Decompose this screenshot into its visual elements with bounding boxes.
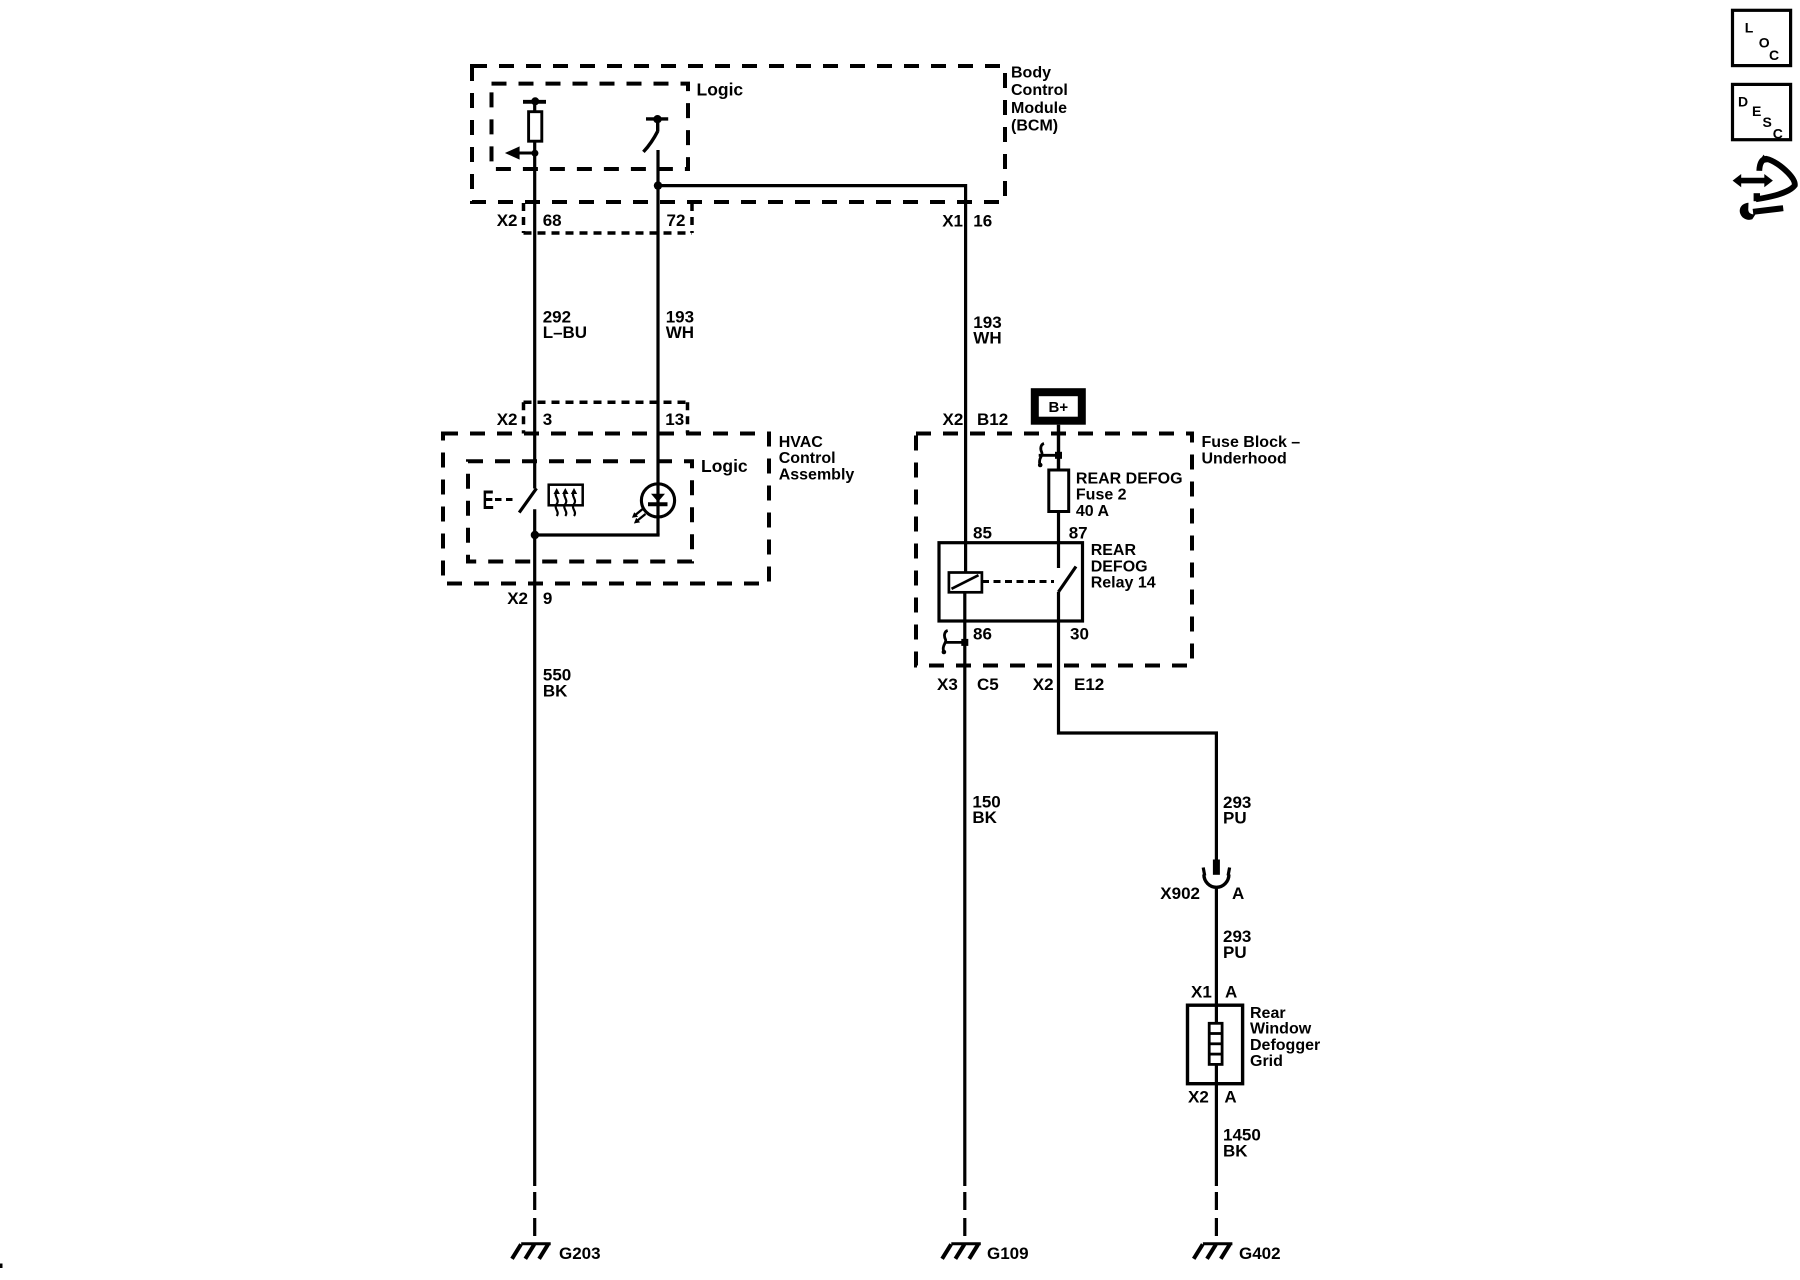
svg-text:G203: G203 — [559, 1244, 601, 1263]
svg-text:BK: BK — [543, 682, 568, 701]
svg-text:X2: X2 — [1033, 675, 1054, 694]
fuse REAR DEFOG Fuse 2 40A — [1049, 470, 1069, 512]
junction dot HVAC internal — [531, 531, 539, 539]
wire LED bottom to junction (HVAC internal) — [536, 533, 660, 536]
svg-text:PU: PU — [1223, 809, 1247, 828]
wire B+ feed to fuse — [1057, 425, 1060, 470]
svg-text:WH: WH — [973, 329, 1001, 348]
svg-text:Assembly: Assembly — [779, 467, 855, 484]
svg-text:G402: G402 — [1239, 1244, 1281, 1263]
svg-text:9: 9 — [543, 589, 552, 608]
wire dashed lead into ground G402 — [1215, 1192, 1218, 1237]
wire 193 WH segment (BCM switch to HVAC LED) — [656, 150, 659, 535]
E input label and dashed link — [483, 485, 514, 515]
svg-text:72: 72 — [667, 211, 686, 230]
svg-text:X2: X2 — [507, 589, 528, 608]
svg-text:C5: C5 — [977, 675, 999, 694]
resistor (BCM output driver) — [523, 97, 546, 153]
svg-text:G109: G109 — [987, 1244, 1029, 1263]
Rear Window Defogger Grid box — [1188, 1005, 1243, 1083]
svg-text:X1: X1 — [942, 212, 963, 231]
svg-text:B+: B+ — [1049, 399, 1069, 416]
wire fuse to relay contact 87 — [1057, 512, 1060, 569]
svg-text:A: A — [1224, 1088, 1236, 1107]
LED indicator (HVAC) — [632, 484, 675, 524]
svg-text:Control: Control — [779, 450, 836, 467]
wire 1450 BK grid to G402 — [1215, 1064, 1218, 1186]
svg-text:C: C — [1773, 126, 1783, 142]
svg-text:S: S — [1763, 114, 1772, 130]
wire label 293 PU (upper) — [1223, 793, 1251, 828]
Fuse Block Underhood dashed box — [916, 434, 1192, 666]
svg-text:X3: X3 — [937, 675, 958, 694]
relay box REAR DEFOG Relay 14 — [939, 543, 1083, 621]
wire relay 30 to E12 and over to X902 — [1059, 592, 1217, 860]
svg-text:Fuse Block –: Fuse Block – — [1202, 434, 1301, 451]
label REAR DEFOG Relay 14 — [1091, 542, 1156, 592]
svg-text:REAR DEFOG: REAR DEFOG — [1076, 470, 1183, 487]
svg-text:13: 13 — [665, 410, 684, 429]
DESC navigation box — [1733, 84, 1791, 141]
svg-text:Body: Body — [1011, 65, 1051, 82]
bus terminal symbol at fuse — [1038, 444, 1062, 468]
bus terminal symbol at relay 86 — [942, 631, 969, 655]
relay coil — [949, 573, 982, 593]
label HVAC Control Assembly — [779, 434, 855, 484]
svg-text:68: 68 — [543, 211, 562, 230]
connector row box X2 3/13 — [524, 402, 688, 433]
svg-text:PU: PU — [1223, 943, 1247, 962]
label Rear Window Defogger Grid — [1250, 1005, 1320, 1070]
label Fuse Block - Underhood — [1202, 434, 1301, 467]
wire label 1450 BK — [1223, 1126, 1261, 1161]
svg-text:BK: BK — [1223, 1142, 1248, 1161]
svg-text:A: A — [1232, 884, 1244, 903]
svg-text:Defogger: Defogger — [1250, 1037, 1320, 1054]
svg-text:DEFOG: DEFOG — [1091, 558, 1148, 575]
svg-text:Control: Control — [1011, 82, 1068, 99]
label REAR DEFOG Fuse 2 40 A — [1076, 470, 1183, 520]
BCM Logic inner dashed box — [492, 84, 689, 169]
svg-text:HVAC: HVAC — [779, 434, 824, 451]
svg-text:L: L — [1745, 20, 1754, 36]
junction dot BCM output — [654, 181, 662, 189]
wire horizontal BCM output 72 to X1-16 — [658, 186, 966, 573]
svg-text:85: 85 — [973, 524, 992, 543]
wire 550 BK lower segment (HVAC X2-9 to G203) — [533, 509, 536, 1186]
svg-text:X2: X2 — [497, 211, 518, 230]
svg-text:30: 30 — [1070, 625, 1089, 644]
svg-text:REAR: REAR — [1091, 542, 1137, 559]
wire label 193 WH (right) — [973, 313, 1001, 348]
B+ battery feed box — [1035, 392, 1082, 421]
wire label 293 PU (lower) — [1223, 927, 1251, 962]
arrow output node (BCM) — [505, 146, 539, 159]
svg-text:WH: WH — [666, 323, 694, 342]
relay contact blade — [1058, 567, 1076, 593]
svg-text:3: 3 — [543, 410, 552, 429]
inline connector X902 — [1203, 860, 1229, 888]
wire 292 L-BU upper segment (BCM X2-68 to HVAC X2-3 switch) — [533, 153, 536, 489]
svg-text:87: 87 — [1069, 524, 1088, 543]
wire label 150 BK — [972, 793, 1000, 828]
heater grid symbol (switch icon box) — [549, 485, 583, 516]
connector row box X2 68/72 — [524, 203, 693, 233]
ground G109 — [942, 1244, 981, 1259]
svg-text:BK: BK — [972, 808, 997, 827]
svg-text:16: 16 — [973, 212, 992, 231]
svg-text:C: C — [1769, 47, 1779, 63]
svg-text:X2: X2 — [1188, 1088, 1209, 1107]
wire label 292 L-BU — [543, 308, 587, 343]
HVAC Logic inner dashed box — [468, 461, 692, 561]
svg-text:X2: X2 — [943, 410, 964, 429]
svg-text:X902: X902 — [1160, 884, 1200, 903]
svg-text:Module: Module — [1011, 100, 1067, 117]
svg-text:Window: Window — [1250, 1021, 1312, 1038]
svg-text:Underhood: Underhood — [1202, 450, 1287, 467]
svg-text:D: D — [1738, 94, 1748, 110]
svg-text:Grid: Grid — [1250, 1053, 1283, 1070]
schematic link icon (arrows and wrench) — [1733, 155, 1795, 220]
page edge artifact dot — [0, 1264, 3, 1269]
switch blade (HVAC defog switch) — [519, 488, 536, 512]
svg-text:(BCM): (BCM) — [1011, 117, 1058, 134]
svg-text:40 A: 40 A — [1076, 503, 1110, 520]
wire dashed lead into ground G109 — [963, 1192, 966, 1237]
wire dashed lead into ground G203 — [533, 1192, 536, 1237]
svg-text:Fuse 2: Fuse 2 — [1076, 487, 1127, 504]
svg-text:X2: X2 — [497, 410, 518, 429]
svg-text:E12: E12 — [1074, 675, 1104, 694]
Body Control Module (BCM) outer dashed box — [472, 66, 1005, 202]
grid element — [1209, 1023, 1222, 1064]
svg-text:86: 86 — [973, 625, 992, 644]
svg-text:Logic: Logic — [697, 79, 744, 99]
relay actuation dashed link — [982, 580, 1054, 583]
svg-text:E: E — [1752, 103, 1761, 119]
HVAC Control Assembly outer dashed box — [443, 434, 769, 584]
svg-text:Logic: Logic — [701, 456, 748, 476]
wire 293 PU X902 to defogger grid — [1215, 889, 1218, 1024]
svg-text:B12: B12 — [977, 410, 1008, 429]
wire 150 BK (relay coil 86 to G109) — [963, 592, 966, 1186]
LOC navigation box — [1733, 10, 1791, 65]
svg-text:Relay 14: Relay 14 — [1091, 575, 1156, 592]
svg-text:E: E — [483, 485, 494, 515]
ground G203 — [512, 1244, 551, 1259]
wire label 193 WH (left) — [666, 308, 694, 343]
label Body Control Module (BCM) — [1011, 65, 1068, 135]
ground G402 — [1194, 1244, 1233, 1259]
wire label 550 BK — [543, 666, 571, 701]
switch (BCM logic, pin 72) — [643, 115, 668, 152]
svg-text:L–BU: L–BU — [543, 323, 587, 342]
svg-text:A: A — [1225, 983, 1237, 1002]
svg-text:X1: X1 — [1191, 983, 1212, 1002]
svg-text:Rear: Rear — [1250, 1005, 1286, 1022]
